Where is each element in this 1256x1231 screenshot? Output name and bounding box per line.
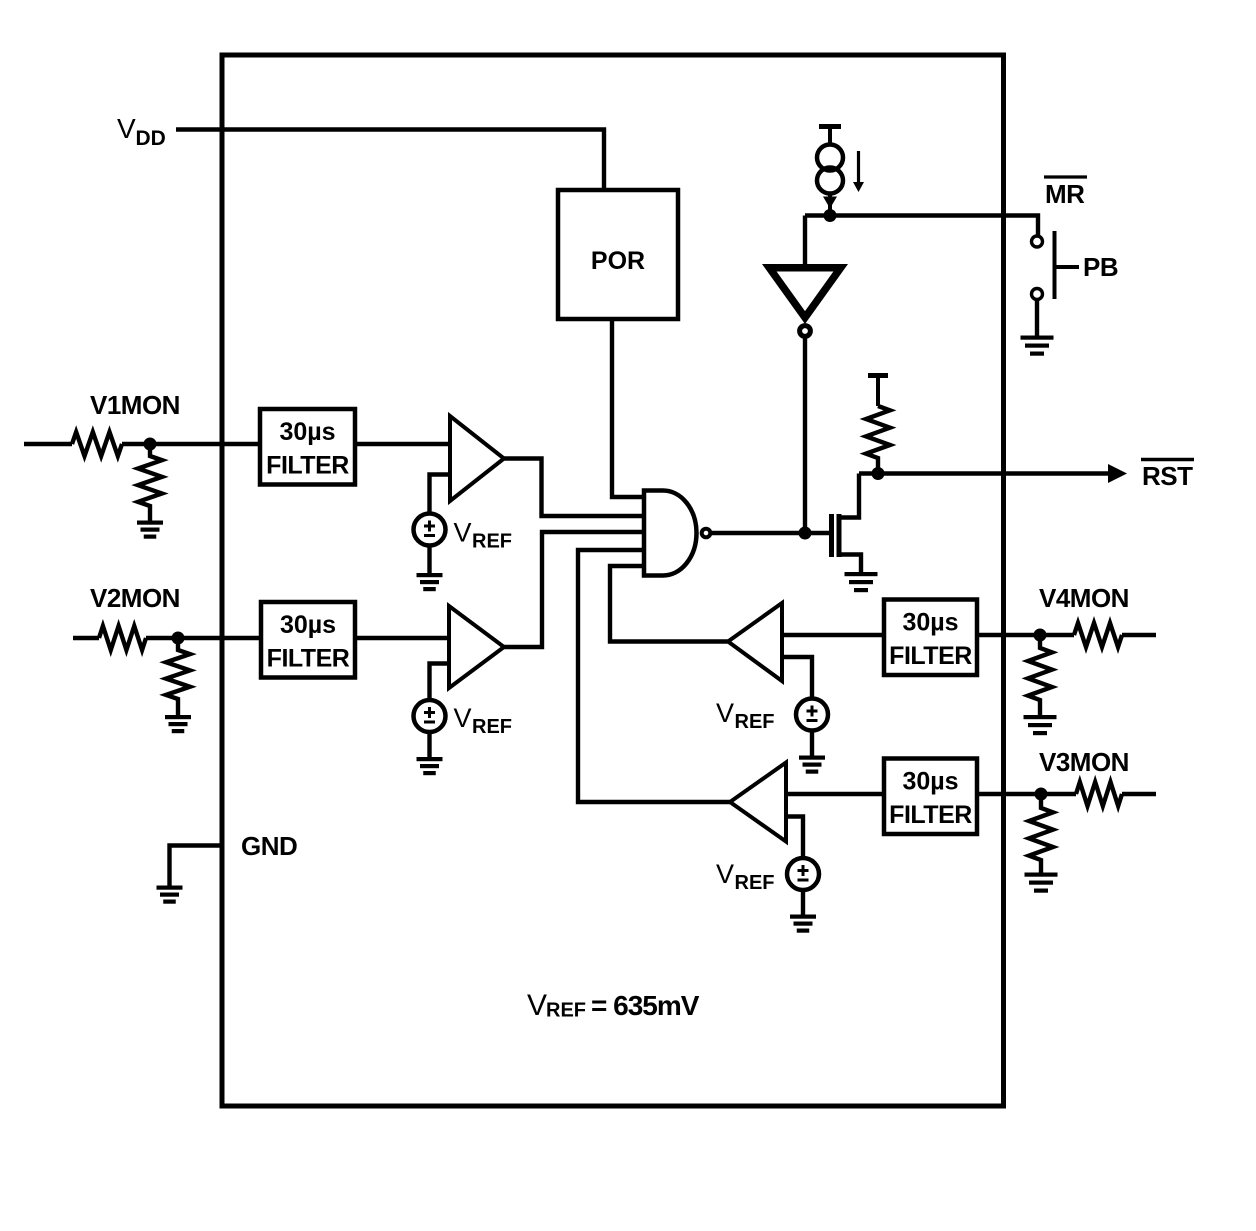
node MR net junction [824,209,837,222]
svg-text:RST: RST [1142,461,1193,491]
switch PB actuator bar [1053,231,1057,299]
ground for VS1 [417,573,443,591]
label VREF for VS2 [454,703,513,738]
wire U1 output to Q1 gate [710,531,831,535]
wire U2 output to NAND output node [803,339,807,534]
wire GND pin [170,846,223,886]
wire VDD to POR block [176,130,604,193]
wire A3 inverting input to VREF VS3 [786,817,803,860]
svg-text:30µs: 30µs [279,418,335,446]
wire MR to inverter U2 [803,216,807,265]
node V4MON junction [1034,629,1047,642]
svg-text:FILTER: FILTER [889,642,972,670]
switch PB bottom contact [1032,289,1043,300]
label VREF for VS4 [716,698,775,733]
ground for Q1 source [845,572,878,592]
ground for R8 [1025,873,1058,893]
wire PB to ground [1035,300,1039,336]
wire A4 output to NAND input 5 [610,566,728,642]
node RST junction [872,467,885,480]
pin label RST [1141,460,1194,492]
current source CS1 supply bar [819,127,841,145]
wire RST output [859,471,1109,475]
svg-text:30µs: 30µs [280,611,336,639]
wire VS1 to ground [427,546,431,574]
filter block F1 30us [260,409,355,485]
wire A2 output to NAND input 3 [504,532,642,647]
svg-text:= 635mV: = 635mV [591,990,700,1021]
svg-text:V: V [454,703,472,733]
svg-text:30µs: 30µs [902,768,958,796]
inverter U2 output bubble [800,326,811,337]
pin label VDD [117,113,166,150]
svg-text:REF: REF [472,531,512,553]
resistor R8 V3MON to ground [1029,794,1053,873]
svg-text:V4MON: V4MON [1039,583,1129,613]
pin label MR [1044,177,1087,209]
resistor R1 V1MON series [72,432,122,456]
vref source VS3 [787,858,819,890]
resistor R6 V4MON to ground [1028,635,1052,715]
node inverter output junction [799,527,812,540]
svg-text:FILTER: FILTER [889,801,972,829]
wire POR output to NAND input 1 [612,319,642,497]
wire V1MON pin lead [24,442,72,446]
comparator A4 [728,603,782,681]
svg-text:POR: POR [591,247,645,275]
vref source VS2 [414,700,446,732]
ground for VS4 [799,756,825,774]
svg-text:V: V [117,113,136,144]
wire F1 to comparator A1 [355,442,450,446]
wire V4MON pin to F4 [977,633,1074,637]
wire V2MON pin lead [73,636,99,640]
wire V3MON pin to F3 [977,792,1076,796]
wire A4 inverting input to VREF VS4 [782,657,812,700]
current source CS1 [817,145,843,213]
wire V2MON to filter F2 [146,636,261,640]
resistor R2 V1MON to ground [138,444,162,521]
filter block F4 30us [884,600,977,676]
label VREF for VS3 [716,859,775,894]
svg-text:REF: REF [546,1000,586,1022]
comparator A2 [449,606,504,688]
svg-text:DD: DD [136,127,166,150]
resistor R9 pull-up [866,406,890,474]
note VREF value [527,989,700,1022]
ground for PB [1021,336,1054,356]
ground for R2 [137,521,163,539]
ground for R4 [165,715,191,733]
svg-text:30µs: 30µs [902,609,958,637]
wire A2 inverting input to VREF VS2 [430,664,450,702]
wire VS2 to ground [427,732,431,757]
transistor Q1 channel bar [837,514,842,557]
node V3MON junction [1035,788,1048,801]
nand U1 output bubble [702,529,711,538]
wire V4MON pin lead [1122,633,1156,637]
filter block F3 30us [884,759,977,835]
svg-text:FILTER: FILTER [266,452,349,480]
wire V3MON pin lead [1122,792,1156,796]
transistor Q1 gate bar [829,514,834,557]
chip boundary box [222,55,1004,1106]
svg-text:V: V [716,859,734,889]
wire VS4 to ground [810,731,814,756]
comparator A1 [450,416,504,501]
svg-text:MR: MR [1045,179,1085,209]
svg-text:V3MON: V3MON [1039,747,1129,777]
wire VS3 to ground [801,890,805,915]
svg-text:V: V [454,518,472,548]
svg-text:FILTER: FILTER [267,645,350,673]
ground for R6 [1024,715,1057,735]
resistor R3 V2MON series [99,626,146,650]
switch PB top contact [1032,236,1043,247]
vref source VS4 [796,699,828,731]
ground for VS2 [417,757,443,775]
filter block F2 30us [261,602,355,678]
svg-text:V1MON: V1MON [90,390,180,420]
pull-up supply bar [868,376,888,407]
ground for GND pin [157,886,183,904]
RST arrowhead [1108,464,1127,483]
POR block U3 [558,190,678,319]
wire MR net [805,216,1038,237]
resistor R4 V2MON to ground [166,638,190,715]
vref source VS1 [414,514,446,546]
resistor R7 V3MON series [1076,782,1122,806]
svg-text:V2MON: V2MON [90,583,180,613]
ground for VS3 [790,915,816,933]
resistor R5 V4MON series [1074,623,1122,647]
wire V1MON to filter F1 [122,442,260,446]
wire F2 to comparator A2 [355,636,449,640]
svg-text:GND: GND [241,831,297,861]
nand gate U1 [644,491,697,576]
node V2MON junction [172,632,185,645]
wire F4 to comparator A4 [782,633,884,637]
svg-text:PB: PB [1083,252,1118,282]
label PB [1055,252,1119,282]
wire A3 output to NAND input 4 [578,550,730,802]
svg-text:V: V [527,989,547,1022]
current direction arrow [853,151,864,192]
wire Q1 source to ground [839,555,861,573]
wire A1 output to NAND input 2 [504,459,642,517]
wire A1 inverting input to VREF VS1 [430,475,451,515]
wire F3 to comparator A3 [786,792,884,796]
svg-text:REF: REF [472,716,512,738]
node V1MON junction [144,438,157,451]
label VREF for VS1 [454,518,513,553]
svg-text:REF: REF [735,872,775,894]
comparator A3 [730,763,786,842]
inverter U2 [762,264,848,324]
svg-text:V: V [716,698,734,728]
svg-text:REF: REF [735,711,775,733]
wire Q1 drain [839,474,859,518]
